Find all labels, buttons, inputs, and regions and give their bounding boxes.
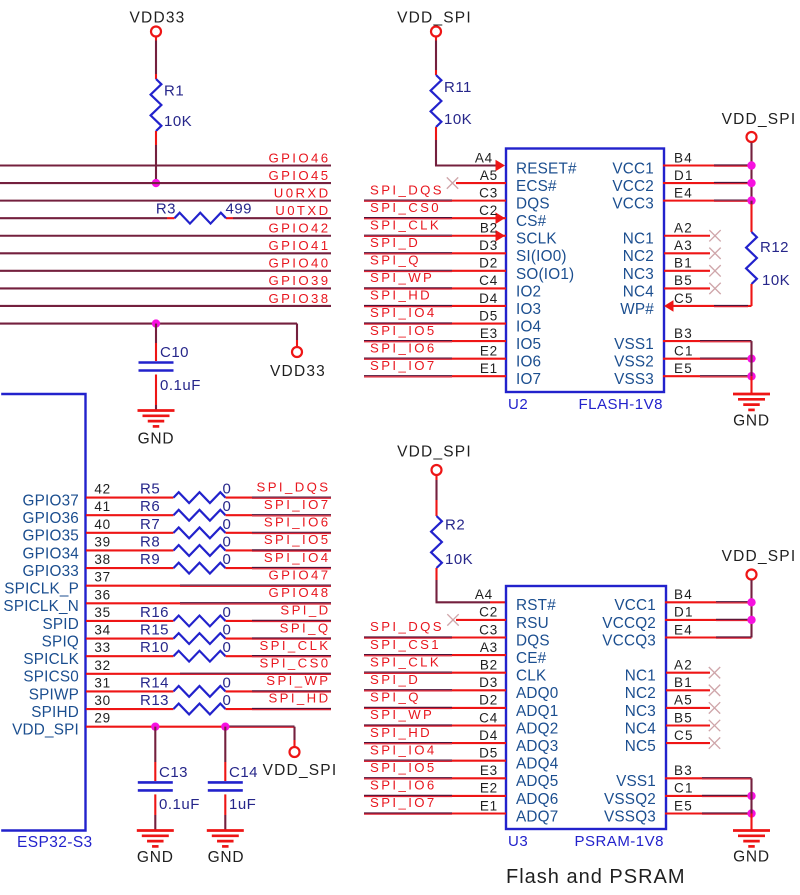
svg-text:R9: R9: [140, 551, 160, 568]
svg-text:B3: B3: [674, 326, 693, 341]
svg-text:499: 499: [226, 201, 253, 218]
svg-text:SPI_IO7: SPI_IO7: [370, 795, 437, 810]
U3 pin C2 no-connect stub: [456, 619, 506, 621]
capacitor C10 0.1uF: [139, 361, 174, 364]
resistor R3 499: [175, 213, 227, 224]
svg-text:33: 33: [94, 640, 111, 655]
svg-text:E3: E3: [480, 326, 498, 341]
svg-text:SPI_IO7: SPI_IO7: [370, 358, 437, 373]
svg-text:SPI_HD: SPI_HD: [370, 288, 432, 303]
wire VSS rail down: [750, 341, 752, 376]
svg-text:GND: GND: [733, 849, 770, 866]
svg-text:31: 31: [94, 675, 111, 690]
resistor R2: [431, 516, 442, 568]
resistor R11: [431, 75, 442, 127]
wire U2 VSS row B3: [663, 340, 700, 342]
U3 NC stub C5: [666, 742, 710, 744]
svg-text:B4: B4: [674, 587, 693, 602]
wire U3 SPI_WP: [364, 724, 452, 726]
wire R12 to WP#: [750, 284, 752, 306]
svg-text:SPI_IO6: SPI_IO6: [370, 778, 437, 793]
svg-text:SI(IO0): SI(IO0): [516, 248, 567, 265]
ground below C13: [137, 829, 174, 832]
svg-text:IO3: IO3: [516, 301, 541, 318]
wire ESP32 pin 35 to R16: [86, 620, 174, 622]
svg-text:0.1uF: 0.1uF: [159, 796, 200, 813]
wire ESP32 pin 37 GPIO47: [86, 585, 180, 587]
wire R7 to SPI_IO6: [226, 532, 253, 534]
svg-text:A2: A2: [674, 658, 693, 673]
svg-text:SPI_IO4: SPI_IO4: [264, 550, 331, 565]
capacitor C13 0.1uF: [138, 781, 173, 784]
svg-text:GND: GND: [138, 431, 175, 448]
wire U2 SPI_Q: [364, 269, 452, 271]
svg-text:C14: C14: [229, 764, 258, 781]
svg-text:FLASH-1V8: FLASH-1V8: [578, 396, 663, 413]
junction: [747, 598, 755, 606]
wire VDD_SPI to R2: [435, 476, 437, 481]
svg-text:35: 35: [94, 605, 111, 620]
svg-text:NC1: NC1: [625, 668, 656, 685]
svg-text:B5: B5: [674, 710, 693, 725]
wire U3 SPI_IO4: [364, 759, 452, 761]
svg-text:A5: A5: [674, 693, 693, 708]
svg-text:C4: C4: [479, 273, 498, 288]
wire R13 to SPI_HD: [226, 708, 253, 710]
wire R10 to SPI_CLK: [226, 655, 253, 657]
svg-text:R7: R7: [140, 516, 160, 533]
svg-text:Flash and PSRAM: Flash and PSRAM: [506, 866, 686, 888]
wire R9 to SPI_IO4: [226, 567, 253, 569]
svg-text:10K: 10K: [444, 111, 472, 128]
svg-text:37: 37: [94, 570, 111, 585]
svg-text:ADQ3: ADQ3: [516, 738, 558, 755]
wire U3 SPI_Q: [364, 706, 452, 708]
junction: [747, 179, 755, 187]
svg-text:VDD33: VDD33: [270, 363, 326, 380]
junction: [747, 196, 755, 204]
ground below C10: [138, 409, 175, 412]
wire bus U0TXD: [0, 217, 167, 219]
svg-text:0: 0: [223, 604, 232, 621]
svg-text:VDD_SPI: VDD_SPI: [397, 10, 472, 27]
svg-text:A2: A2: [674, 221, 693, 236]
wire U3 VCC row E4: [665, 636, 716, 638]
svg-text:GPIO33: GPIO33: [23, 563, 79, 580]
svg-text:GND: GND: [137, 849, 174, 866]
svg-text:1uF: 1uF: [229, 796, 256, 813]
wire ESP32 pin 34 to R15: [86, 638, 174, 640]
svg-text:CS#: CS#: [516, 213, 547, 230]
wire down to VDD33 symbol: [296, 324, 298, 340]
svg-text:VCCQ3: VCCQ3: [602, 632, 656, 649]
svg-text:R12: R12: [760, 239, 789, 256]
svg-text:IO7: IO7: [516, 371, 541, 388]
svg-text:SPID: SPID: [42, 616, 79, 633]
svg-text:GPIO47: GPIO47: [268, 567, 330, 582]
svg-text:SPI_HD: SPI_HD: [268, 691, 330, 706]
resistor R12: [746, 232, 757, 284]
wire U2 SPI_DQS: [364, 199, 452, 201]
svg-text:VCC1: VCC1: [612, 160, 654, 177]
wire U2 VSS row C1: [663, 358, 700, 360]
wire R5 to SPI_DQS: [226, 497, 253, 499]
wire ESP32 pin 41 to R6: [86, 514, 174, 516]
svg-text:R13: R13: [140, 692, 169, 709]
wire ESP32 pin 36 GPIO48: [86, 602, 180, 604]
svg-text:NC2: NC2: [625, 685, 656, 702]
wire ESP32 pin 39 to R8: [86, 549, 174, 551]
svg-text:SPI_D: SPI_D: [280, 603, 330, 618]
svg-text:RST#: RST#: [516, 597, 556, 614]
wire pin29 to C13: [154, 727, 156, 762]
svg-text:D1: D1: [674, 168, 694, 183]
svg-text:GPIO45: GPIO45: [268, 168, 330, 183]
wire U2 SPI_CLK: [364, 234, 452, 236]
svg-text:B5: B5: [674, 273, 693, 288]
svg-text:39: 39: [94, 534, 111, 549]
svg-text:0: 0: [223, 498, 232, 515]
svg-text:SPI_HD: SPI_HD: [370, 725, 432, 740]
U3 NC stub A2: [666, 672, 710, 674]
svg-text:C2: C2: [479, 203, 498, 218]
svg-text:C10: C10: [160, 344, 189, 361]
svg-text:SPI_CS0: SPI_CS0: [370, 200, 441, 215]
chip U3 PSRAM-1V8: [506, 586, 666, 829]
svg-text:30: 30: [94, 693, 111, 708]
U2 NC stub B1: [664, 270, 710, 272]
resistor R16 0 ohm: [174, 616, 226, 627]
svg-text:WP#: WP#: [620, 301, 654, 318]
svg-text:ADQ0: ADQ0: [516, 685, 558, 702]
svg-text:RESET#: RESET#: [516, 160, 577, 177]
U3 NC stub B1: [666, 689, 710, 691]
U3 NC stub B5: [666, 724, 710, 726]
wire U3 SPI_IO7: [364, 812, 452, 814]
wire VCC3 node to R12: [750, 201, 752, 204]
U2 pin A5 no-connect stub: [456, 182, 506, 184]
svg-text:VDD_SPI: VDD_SPI: [397, 444, 472, 461]
svg-text:E4: E4: [674, 622, 693, 637]
resistor R8 0 ohm: [174, 545, 226, 556]
wire to C10: [155, 324, 157, 343]
svg-text:GPIO37: GPIO37: [23, 493, 79, 510]
U3 NC stub A5: [666, 707, 710, 709]
resistor R10 0 ohm: [174, 651, 226, 662]
svg-text:U3: U3: [508, 833, 528, 850]
wire U2 VSS row E5: [663, 375, 700, 377]
svg-text:E3: E3: [480, 763, 498, 778]
wire bus GPIO46: [0, 164, 331, 166]
junction: [747, 809, 755, 817]
svg-text:C3: C3: [479, 185, 498, 200]
svg-text:B2: B2: [480, 221, 498, 236]
wire bus GPIO38: [0, 305, 331, 307]
wire U3 VSS row B3: [665, 777, 702, 779]
junction: [747, 792, 755, 800]
svg-text:SPI_WP: SPI_WP: [370, 270, 434, 285]
junction: [747, 616, 755, 624]
svg-text:42: 42: [94, 482, 111, 497]
svg-text:SPIQ: SPIQ: [42, 633, 79, 650]
wire C13 to ground: [154, 794, 156, 815]
svg-text:VDD_SPI: VDD_SPI: [722, 548, 797, 565]
wire bus GPIO42: [0, 235, 331, 237]
svg-text:SO(IO1): SO(IO1): [516, 266, 574, 283]
svg-text:SPICLK_P: SPICLK_P: [4, 581, 79, 598]
svg-text:NC5: NC5: [625, 738, 656, 755]
svg-text:D3: D3: [479, 238, 498, 253]
svg-text:DQS: DQS: [516, 196, 550, 213]
svg-text:E2: E2: [480, 343, 498, 358]
wire ESP32 pin 33 to R10: [86, 655, 174, 657]
svg-text:0: 0: [223, 516, 232, 533]
wire bus GPIO45: [0, 182, 331, 184]
svg-text:CLK: CLK: [516, 668, 547, 685]
wire C10 to ground: [155, 375, 157, 406]
svg-text:10K: 10K: [762, 272, 790, 289]
svg-text:C5: C5: [674, 728, 694, 743]
svg-text:D4: D4: [479, 291, 498, 306]
svg-text:ADQ4: ADQ4: [516, 756, 559, 773]
svg-text:D3: D3: [479, 675, 498, 690]
svg-text:R6: R6: [140, 498, 160, 515]
wire U2 SPI_IO4: [364, 322, 452, 324]
ground below C14: [207, 829, 244, 832]
wire R14 to SPI_WP: [226, 690, 253, 692]
svg-text:B3: B3: [674, 763, 693, 778]
svg-text:IO4: IO4: [516, 318, 542, 335]
wire ESP32 pin 38 to R9: [86, 567, 174, 569]
svg-text:0: 0: [223, 622, 232, 639]
junction C14: [221, 722, 229, 730]
junction: [747, 354, 755, 362]
svg-text:VCC1: VCC1: [614, 597, 656, 614]
svg-text:32: 32: [94, 658, 111, 673]
svg-text:SPI_WP: SPI_WP: [266, 673, 330, 688]
svg-text:R15: R15: [140, 622, 169, 639]
svg-text:SPI_Q: SPI_Q: [370, 690, 421, 705]
svg-text:R5: R5: [140, 481, 160, 498]
resistor R5 0 ohm: [174, 492, 226, 503]
svg-text:SPI_CS1: SPI_CS1: [370, 637, 441, 652]
svg-text:ESP32-S3: ESP32-S3: [17, 834, 93, 851]
svg-text:SCLK: SCLK: [516, 231, 557, 248]
wire down to VDD_SPI symbol: [293, 727, 295, 740]
resistor R14 0 ohm: [174, 686, 226, 697]
svg-text:0: 0: [223, 481, 232, 498]
svg-text:C1: C1: [674, 781, 694, 796]
svg-text:NC3: NC3: [623, 266, 654, 283]
svg-text:B1: B1: [674, 675, 693, 690]
wire bus GPIO41: [0, 252, 331, 254]
svg-text:NC4: NC4: [625, 720, 656, 737]
svg-text:ADQ6: ADQ6: [516, 791, 558, 808]
svg-text:0: 0: [223, 639, 232, 656]
svg-text:NC4: NC4: [623, 283, 654, 300]
svg-text:SPIHD: SPIHD: [31, 704, 79, 721]
svg-text:GPIO42: GPIO42: [268, 221, 330, 236]
svg-text:E1: E1: [480, 798, 498, 813]
svg-text:0: 0: [223, 674, 232, 691]
svg-text:GPIO40: GPIO40: [268, 256, 330, 271]
wire U2 SPI_WP: [364, 287, 452, 289]
svg-text:GPIO35: GPIO35: [23, 528, 79, 545]
wire ESP32 pin 32 SPI_CS0: [86, 673, 180, 675]
svg-text:C5: C5: [674, 291, 694, 306]
U2 NC stub B5: [664, 287, 710, 289]
svg-text:ECS#: ECS#: [516, 178, 557, 195]
svg-text:SPI_IO4: SPI_IO4: [370, 742, 437, 757]
svg-text:RSU: RSU: [516, 615, 549, 632]
svg-text:29: 29: [94, 711, 111, 726]
svg-text:B4: B4: [674, 150, 693, 165]
svg-text:0: 0: [223, 692, 232, 709]
svg-text:R11: R11: [444, 79, 472, 96]
wire U2 VCC row B4: [663, 164, 714, 166]
svg-text:D1: D1: [674, 605, 694, 620]
svg-text:40: 40: [94, 517, 111, 532]
wire U2 VCC row E4: [663, 200, 714, 202]
resistor R15 0 ohm: [174, 633, 226, 644]
wire bus U0RXD: [0, 200, 331, 202]
resistor R9 0 ohm: [174, 563, 226, 574]
svg-text:DQS: DQS: [516, 632, 550, 649]
svg-text:GPIO48: GPIO48: [268, 585, 330, 600]
wire ESP32 pin 30 to R13: [86, 708, 174, 710]
wire U2 SPI_CS0: [364, 217, 452, 219]
U2 NC stub A3: [664, 252, 710, 254]
svg-text:34: 34: [94, 623, 111, 638]
svg-text:VCC3: VCC3: [612, 196, 654, 213]
svg-text:41: 41: [94, 499, 111, 514]
resistor R1: [151, 79, 162, 131]
svg-text:SPI_D: SPI_D: [370, 672, 420, 687]
svg-text:U2: U2: [508, 396, 528, 413]
svg-text:C2: C2: [479, 605, 498, 620]
svg-text:ADQ1: ADQ1: [516, 703, 558, 720]
capacitor C14 1uF: [208, 781, 243, 784]
svg-text:ADQ5: ADQ5: [516, 773, 558, 790]
wire U3 VSS row E5: [665, 812, 702, 814]
svg-text:D5: D5: [479, 308, 498, 323]
wire R16 to SPI_D: [226, 620, 253, 622]
junction: [747, 372, 755, 380]
svg-text:0: 0: [223, 533, 232, 550]
svg-text:C1: C1: [674, 343, 694, 358]
wire U3 SPI_D: [364, 689, 452, 691]
svg-text:38: 38: [94, 552, 111, 567]
svg-text:D4: D4: [479, 728, 498, 743]
wire R11 to RESET# pin A4: [435, 127, 437, 140]
svg-text:0.1uF: 0.1uF: [160, 377, 201, 394]
svg-text:R2: R2: [445, 517, 465, 534]
svg-text:C4: C4: [479, 710, 498, 725]
resistor R13 0 ohm: [174, 704, 226, 715]
svg-text:SPI_IO5: SPI_IO5: [264, 532, 331, 547]
svg-text:VCCQ2: VCCQ2: [602, 615, 656, 632]
wire U3 SPI_IO6: [364, 794, 452, 796]
svg-text:GND: GND: [208, 849, 245, 866]
wire C14 to ground: [224, 794, 226, 815]
svg-text:A4: A4: [475, 150, 493, 165]
wire U3 SPI_HD: [364, 742, 452, 744]
wire U2 SPI_D: [364, 252, 452, 254]
svg-text:SPIWP: SPIWP: [29, 686, 79, 703]
wire R8 to SPI_IO5: [226, 549, 253, 551]
svg-text:SPI_IO6: SPI_IO6: [370, 340, 437, 355]
svg-text:SPI_DQS: SPI_DQS: [257, 479, 331, 494]
svg-text:SPI_IO4: SPI_IO4: [370, 305, 437, 320]
svg-text:GPIO34: GPIO34: [23, 545, 80, 562]
wire VDD33 to R1: [155, 37, 157, 41]
svg-text:E2: E2: [480, 781, 498, 796]
svg-text:A5: A5: [480, 168, 498, 183]
svg-text:SPI_IO7: SPI_IO7: [264, 497, 331, 512]
svg-text:R10: R10: [140, 639, 169, 656]
svg-text:SPI_CLK: SPI_CLK: [370, 217, 441, 232]
svg-text:SPI_DQS: SPI_DQS: [370, 619, 444, 634]
svg-text:R1: R1: [164, 83, 184, 100]
ground below U2: [733, 393, 770, 396]
svg-text:E5: E5: [674, 798, 693, 813]
junction on GPIO45 line: [152, 179, 160, 187]
svg-text:SPICLK_N: SPICLK_N: [3, 598, 79, 615]
svg-text:SPICS0: SPICS0: [23, 669, 79, 686]
svg-text:R3: R3: [156, 201, 176, 218]
svg-text:VDD33: VDD33: [130, 10, 186, 27]
svg-text:ADQ2: ADQ2: [516, 720, 558, 737]
resistor R6 0 ohm: [174, 510, 226, 521]
chip U2 FLASH-1V8: [506, 149, 664, 393]
wire U2 SPI_IO6: [364, 357, 452, 359]
svg-text:10K: 10K: [445, 551, 473, 568]
svg-text:GPIO36: GPIO36: [23, 510, 79, 527]
svg-text:VSSQ3: VSSQ3: [604, 808, 656, 825]
wire U3 SPI_CLK: [364, 671, 452, 673]
power symbol VDD_SPI (pin29): [290, 747, 300, 757]
wire bus GPIO40: [0, 270, 331, 272]
svg-text:SPICLK: SPICLK: [23, 651, 79, 668]
svg-text:B2: B2: [480, 658, 498, 673]
svg-text:36: 36: [94, 587, 111, 602]
svg-text:SPI_CLK: SPI_CLK: [259, 638, 330, 653]
wire ESP32 pin 29 VDD_SPI: [86, 726, 228, 728]
svg-text:VSSQ2: VSSQ2: [604, 791, 656, 808]
svg-text:SPI_IO6: SPI_IO6: [264, 515, 331, 530]
svg-text:GPIO41: GPIO41: [268, 238, 330, 253]
resistor R7 0 ohm: [174, 527, 226, 538]
svg-text:B1: B1: [674, 256, 693, 271]
svg-text:C13: C13: [159, 764, 188, 781]
svg-text:SPI_Q: SPI_Q: [370, 253, 421, 268]
U2 NC stub A2: [664, 235, 710, 237]
wire VDD_SPI rail down: [750, 143, 752, 201]
wire bus GPIO39: [0, 287, 331, 289]
wire U3 SPI_DQS: [364, 636, 452, 638]
wire U2 SPI_IO7: [364, 375, 452, 377]
junction C13: [151, 722, 159, 730]
svg-text:SPI_IO5: SPI_IO5: [370, 323, 437, 338]
chip ESP32-S3 (partial): [1, 394, 85, 831]
svg-text:CE#: CE#: [516, 650, 547, 667]
wire U3 VCC row D1: [665, 619, 716, 621]
wire R6 to SPI_IO7: [226, 514, 253, 516]
wire U2 SPI_IO5: [364, 340, 452, 342]
wire ESP32 pin 40 to R7: [86, 532, 174, 534]
wire VSS rail down: [750, 778, 752, 813]
wire U3 SPI_IO5: [364, 777, 452, 779]
